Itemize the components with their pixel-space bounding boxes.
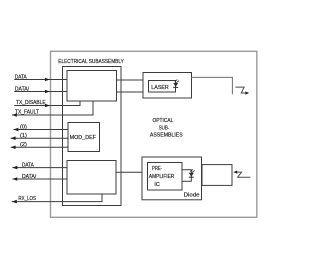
arrow MOD_DEF(1) bbox=[11, 136, 16, 140]
svg-text:DATA/: DATA/ bbox=[22, 174, 37, 180]
svg-text:(2): (2) bbox=[20, 142, 27, 148]
svg-text:DATA/: DATA/ bbox=[15, 87, 30, 93]
arrow RX fiber bbox=[233, 171, 237, 174]
svg-text:TX_FAULT: TX_FAULT bbox=[15, 110, 39, 116]
arrow DATA/ out bbox=[12, 177, 17, 181]
wire DATA/ out bbox=[12, 178, 67, 180]
wire RX signal bbox=[116, 171, 142, 173]
svg-text:DATA: DATA bbox=[22, 162, 34, 168]
pre-amplifier box bbox=[148, 163, 183, 191]
svg-text:RX_LOS: RX_LOS bbox=[18, 196, 36, 202]
svg-text:MOD_DEF: MOD_DEF bbox=[70, 135, 97, 141]
laser diode D1 bbox=[173, 80, 179, 88]
wire TX_DISABLE bbox=[14, 101, 80, 106]
svg-text:ELECTRICAL SUBASSEMBLY: ELECTRICAL SUBASSEMBLY bbox=[58, 59, 124, 65]
svg-text:IC: IC bbox=[154, 182, 160, 188]
svg-text:SUB-: SUB- bbox=[159, 125, 170, 131]
photodiode loop wires bbox=[182, 170, 191, 182]
ROSA box bbox=[142, 157, 202, 200]
laser driver block bbox=[67, 71, 117, 102]
svg-text:AMPLIFIER: AMPLIFIER bbox=[149, 174, 174, 180]
arrow DATA out bbox=[12, 166, 17, 170]
arrow RX_LOS bbox=[12, 200, 17, 204]
svg-text:ASSEMBLIES: ASSEMBLIES bbox=[150, 132, 183, 138]
electrical subassembly box bbox=[63, 67, 122, 206]
post-amplifier block bbox=[67, 161, 116, 195]
wire DATA in bbox=[14, 79, 67, 81]
photodiode D2 bbox=[189, 169, 195, 177]
arrow MOD_DEF(2) bbox=[11, 146, 16, 150]
laser box bbox=[149, 81, 176, 93]
arrow TX fiber bbox=[245, 91, 249, 94]
wire MOD_DEF(2) bbox=[11, 146, 68, 148]
wire RX_LOS bbox=[12, 194, 102, 201]
svg-text:(0): (0) bbox=[20, 124, 27, 130]
TX fiber symbol bbox=[235, 87, 246, 93]
svg-text:Diode: Diode bbox=[184, 192, 201, 198]
arrow DATA/ in bbox=[45, 90, 50, 94]
wire TX drive + bbox=[117, 79, 144, 81]
wire TOSA fiber out bbox=[192, 77, 233, 94]
MOD_DEF block bbox=[68, 123, 100, 152]
arrow DATA in bbox=[45, 78, 50, 82]
RX fiber symbol bbox=[237, 172, 251, 177]
arrow TX_DISABLE bbox=[45, 104, 50, 108]
svg-text:(1): (1) bbox=[20, 133, 27, 139]
arrow MOD_DEF(0) bbox=[14, 128, 19, 132]
svg-text:PRE-: PRE- bbox=[152, 166, 162, 172]
wire DATA/ in bbox=[14, 91, 67, 93]
wire MOD_DEF(0) bbox=[14, 129, 69, 131]
wire TX_FAULT bbox=[12, 101, 93, 115]
svg-text:DATA: DATA bbox=[15, 75, 27, 81]
fiber receptacle box bbox=[202, 165, 232, 186]
wire MOD_DEF(1) bbox=[11, 137, 68, 139]
wire TX drive - bbox=[117, 91, 144, 93]
label OPTICAL SUB-ASSEMBLIES bbox=[150, 118, 183, 138]
outer module box bbox=[51, 51, 257, 217]
svg-text:TX_DISABLE: TX_DISABLE bbox=[16, 100, 46, 106]
arrow TX_FAULT bbox=[12, 113, 17, 117]
svg-text:OPTICAL: OPTICAL bbox=[153, 118, 174, 124]
svg-text:LASER: LASER bbox=[151, 85, 169, 91]
TOSA box bbox=[143, 73, 192, 99]
wire DATA out bbox=[12, 167, 67, 169]
label PRE-AMPLIFIER IC bbox=[149, 166, 174, 188]
